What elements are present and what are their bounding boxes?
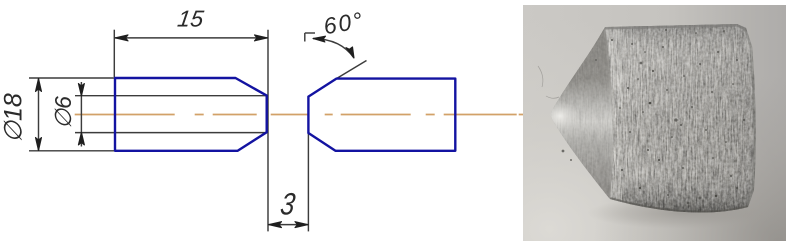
svg-text:∅18: ∅18 <box>0 93 28 143</box>
svg-text:3: 3 <box>278 187 297 222</box>
svg-text:60°: 60° <box>321 7 366 40</box>
svg-text:∅6: ∅6 <box>50 96 76 129</box>
svg-text:15: 15 <box>176 6 205 32</box>
